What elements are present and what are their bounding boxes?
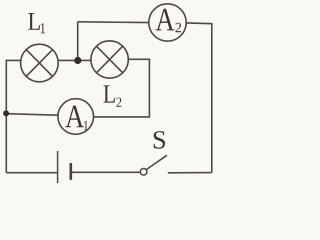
- label L1: [28, 13, 45, 33]
- node junction dot on left rail: [3, 110, 9, 116]
- wire top rail to A2: [78, 21, 149, 24]
- wire bottom right: corner to switch gap: [168, 172, 212, 174]
- wire A2 to top-right corner and down right side: [186, 23, 212, 173]
- ammeter A2: [149, 4, 186, 41]
- wire bottom left: corner to battery long plate: [6, 172, 57, 174]
- node junction dot between L1 and L2: [74, 57, 81, 64]
- label L2: [104, 85, 122, 106]
- lamp L1: [21, 44, 59, 82]
- ammeter A1: [58, 99, 94, 135]
- switch S lever: [147, 155, 167, 169]
- wire between L1 and L2 through node: [58, 59, 91, 61]
- switch S pivot: [140, 169, 147, 176]
- wire A1 left: from left-rail node to A1: [6, 114, 58, 116]
- lamp L2: [91, 41, 128, 78]
- wire node to top rail: [77, 22, 79, 61]
- wire battery to switch pivot: [72, 171, 141, 173]
- wire A1 right to vertical riser up to L2 right terminal: [94, 59, 150, 117]
- battery short plate: [70, 163, 73, 180]
- battery long plate: [57, 151, 59, 183]
- wire left side: L1 left terminal down to bottom-left corner: [6, 60, 20, 172]
- label S: [154, 131, 165, 149]
